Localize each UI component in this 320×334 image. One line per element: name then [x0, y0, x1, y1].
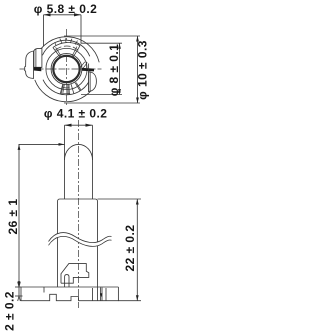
top view: bottom tab white base	[60, 82, 80, 95]
top view: left lug wedge	[34, 67, 41, 71]
top view: waist circle D5.8	[46, 48, 87, 89]
side view: tube right edge	[92, 125, 94, 199]
dimension line D4.1	[65, 124, 93, 126]
top view: outer circle D10 top arc	[35, 37, 99, 63]
side view: flange slots right	[93, 287, 107, 301]
side view: bulb dome	[65, 144, 93, 160]
top view: right lobe inner line	[89, 72, 91, 91]
top view: flange circle D8 bottom arc	[43, 80, 89, 95]
side view: tube left edge	[64, 125, 66, 199]
top view: bottom tab inner cell arcs	[62, 88, 70, 94]
extension line 22 bottom	[118, 300, 141, 302]
svg-text:φ 10 ± 0.3: φ 10 ± 0.3	[136, 40, 150, 100]
extension line 2 bottom stub	[15, 295, 23, 297]
top view: left wing tab	[34, 48, 42, 67]
extension line D5.8 right	[80, 15, 82, 44]
extension line D5.8 left	[43, 15, 45, 46]
extension line D10 bottom	[64, 102, 140, 104]
top view: right wing chord line	[88, 64, 90, 93]
dimension label 2	[3, 291, 17, 331]
svg-text:φ 5.8 ± 0.2: φ 5.8 ± 0.2	[34, 2, 98, 16]
extension line 22 top	[98, 198, 142, 200]
top view: crown tab cell lines	[55, 38, 78, 46]
top view: crown tab inner cell arcs	[55, 46, 78, 50]
side view: clip latch	[61, 264, 89, 284]
dimension line 22	[136, 199, 138, 301]
extension line 26 top	[19, 143, 65, 145]
dimension label D8	[107, 44, 121, 97]
top view: right wing lobe	[89, 72, 97, 92]
extension line D8 top	[81, 42, 123, 44]
dimension label 22	[123, 225, 137, 272]
top view: right quad vertical	[86, 62, 88, 68]
top view: crown tab white base	[53, 43, 80, 57]
top view: outer circle D10 bottom arc	[35, 80, 95, 102]
top view: bottom tab cell rects	[63, 83, 81, 95]
side view: center line	[78, 120, 80, 308]
extension line D10 top	[64, 35, 140, 37]
side view: flange slot arrow mark	[100, 293, 102, 297]
side view: break band white	[49, 233, 112, 247]
side view: break wavy line 1	[49, 233, 112, 243]
top view: right hatch lines	[80, 62, 87, 69]
side view: break wavy line 2	[49, 236, 112, 246]
svg-text:φ 4.1 ± 0.2: φ 4.1 ± 0.2	[44, 107, 108, 121]
dimension line D10	[137, 36, 139, 103]
dimension line 2	[18, 287, 20, 296]
top view: crown tab doubled radials	[56, 47, 77, 57]
svg-text:22 ± 0.2: 22 ± 0.2	[123, 225, 137, 272]
top view: center line horizontal	[20, 68, 102, 70]
side view: clip foot slot	[65, 275, 69, 287]
side view: flange top line	[21, 286, 118, 288]
side view: flange divider left	[43, 287, 45, 293]
dimension label D5.8	[34, 2, 98, 16]
dimension line D5.8	[44, 14, 82, 16]
top view: inner ring outer circle	[51, 54, 82, 85]
top view: left wing tab inner line	[35, 49, 37, 67]
extension line 2 top stub	[15, 286, 21, 288]
top view: right lug wedge	[82, 68, 94, 72]
top view: flange circle D8 top arc	[42, 40, 89, 56]
svg-text:φ 8 ± 0.1: φ 8 ± 0.1	[107, 44, 121, 97]
top view: center line vertical	[66, 29, 68, 107]
dimension label D10	[136, 40, 150, 100]
top view: crown tab radial lines	[53, 39, 80, 57]
side view: body outline	[58, 199, 98, 287]
side view: flange bottom contour	[21, 287, 118, 301]
dimension label D4.1	[44, 107, 108, 121]
top view: bottom tab doubled radials	[61, 84, 68, 95]
svg-text:26 ± 1: 26 ± 1	[6, 199, 20, 235]
top view: inner ring thick circle	[53, 56, 79, 82]
dimension line D8	[119, 43, 121, 94]
extension line D8 bottom	[81, 94, 122, 96]
svg-text:2 ± 0.2: 2 ± 0.2	[3, 291, 17, 331]
top view: left wing lobe	[25, 51, 34, 78]
dimension label 26	[6, 199, 20, 235]
dimension line 26	[18, 144, 20, 287]
top view: bottom tab radial lines	[60, 82, 80, 95]
